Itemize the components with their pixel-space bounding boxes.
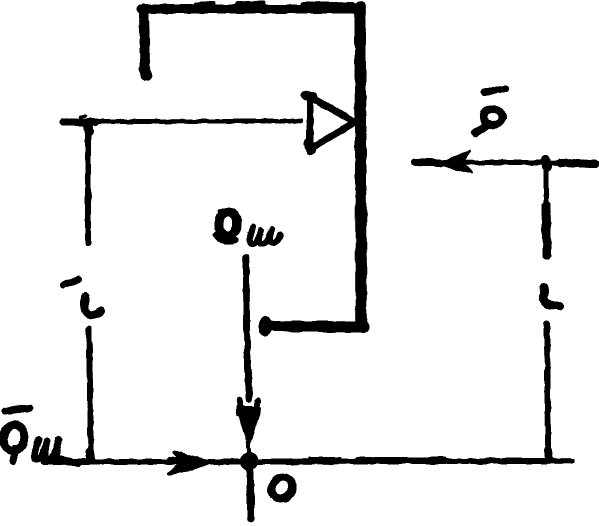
arrowhead pointing right (filled) on bottom line xyxy=(168,452,211,474)
label O (origin) xyxy=(269,474,295,502)
triangle bottom-left corner blob xyxy=(309,144,311,150)
right vertical upper overdraw blobs xyxy=(546,205,547,255)
label P letter xyxy=(475,109,502,133)
arrow wing right xyxy=(257,401,258,411)
arrowhead solid body pointing down xyxy=(238,407,260,445)
wire bracket top horizontal xyxy=(141,5,356,14)
wire left vertical upper segment xyxy=(85,123,91,244)
arrow wing left xyxy=(239,400,240,413)
tick above line start xyxy=(80,116,85,117)
label Q bottom xyxy=(1,423,26,461)
wire bracket top overdraw xyxy=(196,3,353,5)
top right arrow line overdraw xyxy=(415,162,595,164)
arrow tip line to node xyxy=(248,443,249,455)
wire bracket bottom horizontal xyxy=(264,326,364,327)
node O (junction dot) xyxy=(240,452,258,470)
arrow shaft overdraw xyxy=(170,459,206,462)
wire right vertical upper segment xyxy=(544,166,549,204)
right gap hook mark xyxy=(543,288,560,306)
junction bottom left xyxy=(90,452,91,459)
label sh top (Cyrillic sh) xyxy=(249,227,280,244)
wire bracket bottom left end blob xyxy=(259,323,271,330)
wire Qsh force arrow line xyxy=(246,257,249,400)
junction right top xyxy=(546,160,547,167)
wire right vertical lower segment xyxy=(547,323,548,452)
triangle top-left corner blob xyxy=(306,95,313,97)
wire bracket left vertical xyxy=(144,9,145,72)
junction bottom right xyxy=(548,450,549,459)
label P bar xyxy=(484,89,505,92)
wire left vertical lower segment xyxy=(89,329,91,455)
wire below node xyxy=(250,469,251,519)
bottom line overdraw xyxy=(43,459,545,463)
wire bottom horizontal line xyxy=(43,461,572,462)
label Q bar bottom xyxy=(5,408,30,411)
left gap dash mark xyxy=(63,279,79,285)
label sh bottom (Cyrillic sh with tail) xyxy=(34,440,79,463)
wire horizontal line to triangle xyxy=(62,121,301,122)
left gap hook mark xyxy=(85,297,101,315)
wire top right arrow line xyxy=(414,162,597,163)
arrowhead pointing left (filled) xyxy=(440,151,472,173)
wire bracket left vertical end blob xyxy=(145,70,146,75)
label Q top xyxy=(216,210,239,241)
wire line start overdraw xyxy=(63,119,96,126)
arrowhead triangle (large open) xyxy=(310,97,355,149)
junction blob left top xyxy=(88,124,89,131)
wire bracket right vertical xyxy=(360,7,361,324)
